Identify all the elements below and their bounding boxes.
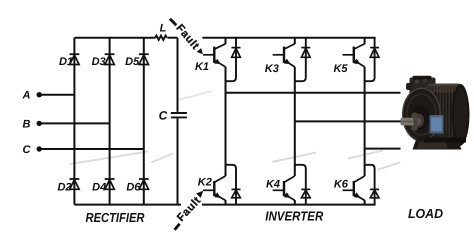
- transistor K2: [203, 176, 226, 200]
- fault annotation arrow (bottom, at K2): [175, 191, 204, 230]
- svg-text:LOAD: LOAD: [408, 206, 444, 221]
- wire: motor phase line 1: [226, 92, 401, 94]
- freewheeling diode K2: [232, 189, 241, 197]
- inductor L (zigzag): [155, 36, 167, 40]
- transistor K1 collector lead: [225, 38, 227, 44]
- freewheeling diode K3: [301, 48, 310, 58]
- wire: capacitor branch top: [177, 38, 179, 112]
- wire: motor phase line 2: [295, 120, 401, 122]
- transistor K5 collector lead: [364, 38, 366, 44]
- fault annotation arrow (top, at K1): [170, 19, 203, 55]
- wire: DC- bottom rail right segment: [202, 204, 376, 206]
- svg-text:D3: D3: [92, 56, 106, 68]
- diode D5: [139, 54, 149, 64]
- wire: DC+ rail to capacitor node: [168, 37, 178, 39]
- svg-text:K5: K5: [333, 63, 348, 75]
- transistor K6 emitter lead: [364, 200, 366, 205]
- svg-text:D2: D2: [57, 181, 71, 193]
- node B terminal dot: [37, 121, 42, 126]
- faint watermark stroke 1: [70, 152, 148, 165]
- wire: DC+ top rail left segment with inductor lead: [74, 37, 155, 39]
- svg-text:A: A: [22, 89, 31, 101]
- svg-text:K2: K2: [198, 176, 212, 188]
- transistor K5: [343, 44, 365, 67]
- capacitor C: [171, 113, 187, 117]
- svg-text:K4: K4: [266, 179, 280, 191]
- diode D1: [70, 54, 80, 64]
- freewheeling diode K5: [370, 48, 379, 58]
- wire: diode K4 branch hook from collector down to DC- rail: [295, 165, 306, 205]
- transistor K3: [273, 44, 295, 67]
- induction motor (load): [401, 76, 470, 150]
- faint watermark stroke 3: [272, 153, 316, 163]
- wire: motor phase line 3: [365, 148, 401, 150]
- transistor K4: [273, 176, 295, 200]
- wire: diode K5 branch from DC+ rail with hook to emitter: [365, 38, 375, 81]
- svg-text:L: L: [160, 23, 167, 35]
- diode D3: [105, 54, 115, 64]
- faint watermark stroke 2: [151, 154, 173, 163]
- diode D6: [139, 179, 149, 189]
- wire: phase B: [39, 122, 109, 124]
- node C terminal dot: [37, 146, 42, 151]
- wire: inverter leg 2 midpoint column: [294, 67, 296, 176]
- svg-text:B: B: [23, 118, 31, 130]
- wire: phase A: [39, 94, 74, 96]
- transistor K4 emitter lead: [294, 200, 296, 205]
- svg-text:INVERTER: INVERTER: [265, 209, 324, 224]
- wire: capacitor branch bottom: [177, 118, 179, 204]
- faint watermark stroke 4: [348, 151, 383, 159]
- wire: diode K3 branch from DC+ rail with hook to emitter: [295, 38, 306, 81]
- svg-text:D4: D4: [92, 181, 106, 193]
- wire: diode K1 branch from DC+ rail with hook to emitter: [226, 38, 237, 81]
- svg-text:K3: K3: [265, 63, 279, 75]
- transistor K1: [203, 44, 226, 67]
- freewheeling diode K1: [232, 48, 241, 58]
- svg-text:K1: K1: [195, 61, 209, 73]
- svg-text:K6: K6: [334, 179, 349, 191]
- wire: rectifier leg 1 (D1/D2): [73, 38, 75, 205]
- faint watermark stroke 5: [378, 163, 400, 170]
- transistor K2 emitter lead: [225, 200, 227, 205]
- wire: inverter leg 3 midpoint column: [364, 67, 366, 176]
- wire: DC- bottom rail left segment: [74, 204, 181, 206]
- wire: diode K2 branch hook from collector down to DC- rail: [226, 165, 237, 205]
- node A terminal dot: [37, 92, 42, 97]
- diode D4: [105, 179, 115, 189]
- wire: rectifier leg 3 (D5/D6): [143, 38, 145, 205]
- svg-text:D6: D6: [126, 181, 141, 193]
- wire: DC+ top rail right segment: [202, 37, 375, 39]
- svg-text:C: C: [23, 144, 32, 156]
- freewheeling diode K4: [301, 189, 310, 197]
- transistor K6: [343, 176, 365, 200]
- svg-text:D1: D1: [59, 56, 73, 68]
- transistor K3 collector lead: [294, 38, 296, 44]
- svg-text:C: C: [159, 109, 168, 123]
- wire: rectifier leg 2 (D3/D4): [109, 38, 111, 205]
- svg-text:RECTIFIER: RECTIFIER: [86, 210, 146, 225]
- wire: phase C: [39, 148, 144, 150]
- wire: inverter leg 1 midpoint column: [225, 67, 227, 176]
- freewheeling diode K6: [370, 189, 379, 197]
- wire: diode K6 branch hook from collector down to DC- rail: [365, 165, 375, 205]
- diode D2: [70, 179, 80, 189]
- faint watermark stroke 6: [178, 91, 212, 100]
- svg-text:D5: D5: [125, 56, 140, 68]
